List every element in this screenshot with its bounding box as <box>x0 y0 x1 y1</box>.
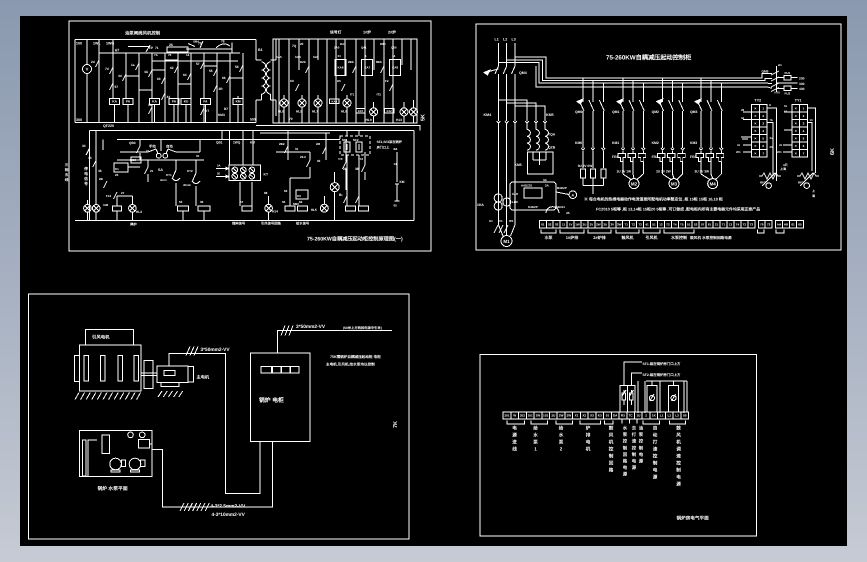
svg-text:T2: T2 <box>666 222 670 226</box>
svg-text:14: 14 <box>186 53 190 57</box>
svg-text:M1: M1 <box>503 239 510 244</box>
svg-text:T2: T2 <box>631 222 635 226</box>
svg-text:风: 风 <box>609 433 614 438</box>
svg-text:KT: KT <box>205 109 209 113</box>
svg-text:HL7: HL7 <box>312 110 318 114</box>
contact FP 71 <box>146 45 150 52</box>
svg-text:79: 79 <box>760 222 764 226</box>
svg-text:H13: H13 <box>396 118 402 122</box>
svg-text:21: 21 <box>150 169 154 173</box>
contact 39 bottom <box>149 107 153 114</box>
contact K7 <box>175 66 179 73</box>
svg-text:D2b: D2b <box>300 60 306 64</box>
contactor KM5 star block <box>527 152 553 174</box>
contact 43 <box>93 160 97 167</box>
svg-text:HL8: HL8 <box>341 110 347 114</box>
svg-text:电: 电 <box>623 465 628 470</box>
svg-text:排: 排 <box>586 433 591 438</box>
svg-text:67: 67 <box>115 49 119 53</box>
svg-text:3U: 3U <box>603 222 607 226</box>
svg-text:T5: T5 <box>680 222 684 226</box>
signal wire column 4 <box>308 39 310 123</box>
motor M1 cable marks <box>498 198 500 225</box>
svg-text:50: 50 <box>217 172 221 176</box>
contact 23p <box>307 160 311 167</box>
svg-text:W: W <box>513 414 516 418</box>
rung link g <box>165 59 178 61</box>
rung link d <box>204 65 217 67</box>
svg-text:1HA: 1HA <box>477 203 484 207</box>
svg-text:TY2: TY2 <box>755 99 762 103</box>
svg-text:QF220: QF220 <box>103 124 114 128</box>
svg-text:41: 41 <box>645 222 649 226</box>
svg-text:KM2: KM2 <box>652 141 659 145</box>
rung link e <box>230 77 243 79</box>
svg-text:FR1: FR1 <box>612 155 619 159</box>
coupling <box>144 361 153 389</box>
svg-text:70: 70 <box>289 117 293 121</box>
svg-text:源: 源 <box>512 433 517 438</box>
svg-text:TrF: TrF <box>338 157 343 161</box>
wire PV drop <box>86 40 88 65</box>
thermal relay FR3 <box>696 154 704 162</box>
svg-text:FA: FA <box>203 100 208 104</box>
svg-text:信号灯: 信号灯 <box>330 30 342 35</box>
svg-text:21: 21 <box>715 222 719 226</box>
svg-text:制: 制 <box>609 454 614 459</box>
svg-text:D41: D41 <box>340 42 346 46</box>
rung link a <box>126 75 139 77</box>
svg-text:2#炉: 2#炉 <box>388 30 396 35</box>
svg-text:KM5: KM5 <box>546 113 554 117</box>
svg-text:QZB: QZB <box>548 146 556 150</box>
pump cable run <box>152 441 272 507</box>
relay box KA8 <box>390 60 401 76</box>
signal wire column 11 <box>373 39 375 70</box>
svg-text:动: 动 <box>653 433 658 438</box>
signal wire column 7 <box>335 39 337 123</box>
ladder mid rail <box>152 60 238 62</box>
rung wire column 3 <box>125 53 127 99</box>
wire link 59 <box>309 167 311 178</box>
pump house tall rect <box>102 435 110 454</box>
indicator lamp HL8 <box>343 99 351 107</box>
relay coil KA1 <box>110 99 120 105</box>
contact Tr2 <box>362 165 366 172</box>
meter box 1 <box>647 385 657 412</box>
relay KA1 coil <box>113 206 122 211</box>
svg-text:KT1: KT1 <box>166 173 172 177</box>
svg-text:fT2: fT2 <box>377 93 382 97</box>
svg-text:H4: H4 <box>777 222 781 226</box>
svg-text:HL9: HL9 <box>366 118 372 122</box>
pump house box <box>79 430 152 476</box>
supply cable marks <box>281 326 293 336</box>
svg-text:水泵: 水泵 <box>544 235 554 240</box>
svg-text:KM: KM <box>400 180 405 184</box>
bus 67 sub rail <box>99 52 240 54</box>
svg-text:电: 电 <box>639 452 644 457</box>
KT feeder wire 3 <box>252 131 254 166</box>
feeder elbow L2 <box>507 60 761 81</box>
signal wire column 13 <box>392 39 394 123</box>
svg-text:M3: M3 <box>671 181 678 186</box>
svg-text:57: 57 <box>115 85 119 89</box>
bus 100 top rail <box>75 39 256 41</box>
control section left rail <box>89 131 91 221</box>
svg-text:SF2-装在锅炉房门口上方: SF2-装在锅炉房门口上方 <box>643 373 681 377</box>
lamp HL4 <box>265 204 273 212</box>
relay box KA6 <box>335 60 346 76</box>
svg-text:3*50mm2-VV: 3*50mm2-VV <box>201 347 231 353</box>
wire SA row <box>120 151 148 153</box>
svg-text:鼓风机: 鼓风机 <box>622 235 635 240</box>
svg-text:水: 水 <box>532 433 538 438</box>
svg-text:60: 60 <box>157 77 161 81</box>
svg-text:1W: 1W <box>536 414 541 418</box>
rung wire column 2 <box>112 53 114 99</box>
transformer B1 primary winding <box>255 40 257 61</box>
fuse FU1 <box>777 77 785 79</box>
svg-text:主电机,引风机,给水泵均以控制: 主电机,引风机,给水泵均以控制 <box>326 362 375 367</box>
lamp HL11 <box>410 108 418 116</box>
svg-text:电: 电 <box>586 440 591 445</box>
svg-text:油泵闸阀风机控制: 油泵闸阀风机控制 <box>125 31 161 36</box>
svg-text:n49: n49 <box>103 203 109 207</box>
contact QB3 <box>137 146 141 153</box>
single stubs panel 4 <box>621 419 623 424</box>
svg-text:7K: 7K <box>393 421 399 428</box>
wire coil drop 7 <box>237 96 239 99</box>
svg-text:25: 25 <box>770 145 774 149</box>
current transformer 1HA <box>494 194 502 202</box>
svg-text:泵: 泵 <box>623 432 628 437</box>
svg-text:1#炉: 1#炉 <box>363 30 371 35</box>
TY1 stubs left <box>784 111 792 113</box>
fan machine body <box>80 345 142 391</box>
svg-text:M4: M4 <box>710 181 717 186</box>
cabinet supply drop <box>277 331 392 353</box>
svg-text:3V: 3V <box>610 222 614 226</box>
svg-text:三: 三 <box>65 163 69 167</box>
contact 28b <box>353 66 357 73</box>
svg-text:F12: F12 <box>106 194 112 198</box>
svg-text:停炉: 停炉 <box>130 223 137 227</box>
svg-text:进: 进 <box>512 440 517 445</box>
svg-text:300: 300 <box>799 82 805 86</box>
svg-text:43: 43 <box>88 156 92 160</box>
contact 34 <box>86 148 90 155</box>
svg-text:7b: 7b <box>770 118 774 122</box>
svg-text:Bı: Bı <box>339 193 342 197</box>
svg-text:KM1: KM1 <box>612 141 619 145</box>
svg-text:SF1-装在锅炉房门口上方: SF1-装在锅炉房门口上方 <box>643 362 681 366</box>
wire right KM column <box>396 152 398 166</box>
svg-text:炉: 炉 <box>586 426 591 431</box>
resistor join bus <box>583 185 603 187</box>
contactor KM3 <box>699 148 703 150</box>
svg-text:电: 电 <box>632 459 637 464</box>
svg-text:KM3: KM3 <box>218 113 225 117</box>
contactor KM5 contacts <box>526 118 528 121</box>
svg-text:相: 相 <box>65 167 69 172</box>
svg-text:53: 53 <box>179 200 183 204</box>
svg-text:电: 电 <box>512 426 517 431</box>
svg-text:T3: T3 <box>750 222 754 226</box>
KT feeder wire 2 <box>242 131 244 166</box>
svg-text:61: 61 <box>791 222 795 226</box>
svg-text:L3: L3 <box>675 414 679 418</box>
svg-text:锅炉房电气平面: 锅炉房电气平面 <box>677 516 710 521</box>
contactor KM1 <box>621 148 625 150</box>
svg-text:1: 1 <box>534 447 537 452</box>
svg-text:2: 2 <box>560 447 563 452</box>
signal wire column 5 <box>317 39 319 60</box>
wire 1WL drop <box>98 40 100 54</box>
strip group brackets panel 2 <box>541 229 556 233</box>
transformer B1 leads bottom <box>261 94 263 100</box>
rung wire column 4 <box>138 53 140 123</box>
svg-text:7Q: 7Q <box>292 44 297 48</box>
svg-text:KA: KA <box>112 100 117 104</box>
pump 1 <box>110 458 122 470</box>
svg-text:鼓风机 水泵控制回路电源: 鼓风机 水泵控制回路电源 <box>690 235 732 240</box>
rung wire column 9 <box>203 53 205 99</box>
svg-text:1WQ: 1WQ <box>233 141 241 145</box>
svg-text:T3: T3 <box>638 222 642 226</box>
svg-text:62: 62 <box>170 66 174 70</box>
svg-text:引风机: 引风机 <box>646 235 659 240</box>
svg-text:93: 93 <box>317 159 321 163</box>
svg-text:FU2: FU2 <box>785 92 791 96</box>
svg-text:27: 27 <box>121 191 125 195</box>
transformer B1 secondary winding <box>267 62 271 94</box>
signal section frame <box>273 39 417 123</box>
svg-text:2#炉排: 2#炉排 <box>593 235 605 240</box>
svg-text:A: A <box>571 193 574 197</box>
svg-text:L3: L3 <box>512 38 516 42</box>
svg-text:打: 打 <box>632 432 637 437</box>
svg-text:源: 源 <box>676 482 681 487</box>
lamp HL3 <box>129 205 137 213</box>
svg-text:HL3: HL3 <box>136 210 142 214</box>
svg-text:K4ǱP: K4ǱP <box>528 205 538 209</box>
feeder elbow L1 <box>515 57 761 78</box>
svg-text:500: 500 <box>250 118 256 122</box>
svg-text:7d: 7d <box>105 67 109 71</box>
svg-text:K3: K3 <box>598 414 602 418</box>
svg-text:海: 海 <box>812 194 815 198</box>
svg-text:2W: 2W <box>596 222 601 226</box>
svg-text:电: 电 <box>653 468 658 473</box>
svg-text:鼓: 鼓 <box>609 426 614 431</box>
svg-text:01: 01 <box>338 54 342 58</box>
relay coil box K5 <box>285 206 295 211</box>
signal wire column 3 <box>298 39 300 70</box>
svg-text:2A0: 2A0 <box>334 46 340 50</box>
svg-text:2d: 2d <box>91 60 95 64</box>
bridge contact 26 <box>167 47 188 52</box>
voltmeter PV <box>83 65 92 74</box>
lamp HL2 <box>92 205 100 213</box>
relay coil KM7 <box>233 99 243 105</box>
svg-text:hA5: hA5 <box>313 55 319 59</box>
svg-text:75-260KW自耦减压起动柜控制原理图(一): 75-260KW自耦减压起动柜控制原理图(一) <box>307 236 403 243</box>
motor M2 <box>622 168 624 174</box>
svg-text:(50米上方两相电源中引来): (50米上方两相电源中引来) <box>343 326 382 330</box>
svg-text:控: 控 <box>639 439 644 444</box>
relay coil box KA9 <box>330 99 339 103</box>
svg-text:制: 制 <box>623 445 628 450</box>
svg-text:TY1: TY1 <box>795 99 802 103</box>
cable main motor 3*50mm2-VV <box>169 353 260 493</box>
svg-text:3W: 3W <box>617 222 622 226</box>
svg-text:62: 62 <box>299 200 303 204</box>
contactor KM4 contacts <box>498 118 500 121</box>
secondary return wire <box>256 125 420 130</box>
svg-text:煤闸信号: 煤闸信号 <box>232 222 246 226</box>
svg-text:101: 101 <box>528 414 533 418</box>
feeder neutral <box>536 66 761 87</box>
svg-text:14: 14 <box>392 54 396 58</box>
svg-text:4-3*10mm2-VV: 4-3*10mm2-VV <box>212 512 246 518</box>
svg-text:H8: H8 <box>784 222 788 226</box>
rung link f <box>139 89 152 91</box>
svg-text:64: 64 <box>183 73 187 77</box>
svg-text:HL5: HL5 <box>311 208 317 212</box>
contact 78 <box>216 44 230 48</box>
svg-text:制: 制 <box>676 468 681 473</box>
svg-text:油: 油 <box>639 426 644 431</box>
indicator lamp H13 <box>400 108 408 116</box>
svg-text:去: 去 <box>632 426 637 431</box>
svg-text:200: 200 <box>799 77 805 81</box>
svg-text:机: 机 <box>586 447 591 452</box>
motor M4 <box>700 168 702 174</box>
svg-text:1U 1V 1W: 1U 1V 1W <box>617 170 632 174</box>
svg-text:75K围锅炉自耦减压起动柜 电柜: 75K围锅炉自耦减压起动柜 电柜 <box>330 354 381 359</box>
svg-text:给: 给 <box>559 426 564 431</box>
svg-text:H: H <box>769 103 771 107</box>
svg-text:回: 回 <box>623 452 628 457</box>
svg-text:14: 14 <box>394 162 398 166</box>
signal wire column 9 <box>355 39 357 123</box>
upper mid rails <box>221 131 223 140</box>
svg-text:K10: K10 <box>358 109 364 113</box>
svg-text:FA: FA <box>126 100 131 104</box>
indicator lamp HL7 <box>314 99 322 107</box>
svg-text:K12: K12 <box>387 109 393 113</box>
junction box <box>138 439 149 448</box>
svg-text:4A: 4A <box>144 70 149 74</box>
svg-text:3B: 3B <box>355 167 360 171</box>
contact lower K6b <box>162 93 166 100</box>
svg-text:控: 控 <box>653 454 658 459</box>
svg-text:QM1: QM1 <box>612 110 619 114</box>
svg-text:57: 57 <box>240 200 244 204</box>
svg-text:KM: KM <box>250 141 255 145</box>
contact K8 <box>188 73 192 80</box>
svg-text:4-3*2.5mm2-VV: 4-3*2.5mm2-VV <box>211 503 246 509</box>
svg-text:300: 300 <box>76 118 82 122</box>
contact row2 b <box>342 84 346 91</box>
wire mid rail 2 <box>117 159 204 161</box>
svg-text:线: 线 <box>512 447 517 452</box>
svg-text:FR2: FR2 <box>652 155 659 159</box>
rung wire column 11 <box>229 53 231 123</box>
svg-text:M2: M2 <box>631 181 638 186</box>
terminal block TY1 <box>792 105 800 113</box>
svg-text:75-260KW自耦减压起动控制柜: 75-260KW自耦减压起动控制柜 <box>606 54 692 62</box>
main motor feet <box>161 383 179 387</box>
svg-text:68: 68 <box>264 191 268 195</box>
svg-text:2M: 2M <box>316 142 321 146</box>
contact n21 <box>145 167 149 174</box>
rung wire column 5 <box>151 53 153 99</box>
svg-text:鼓: 鼓 <box>676 426 681 431</box>
svg-text:3ʌ: 3ʌ <box>770 136 774 140</box>
svg-text:05: 05 <box>394 204 398 208</box>
svg-text:02: 02 <box>548 222 552 226</box>
svg-text:51: 51 <box>652 222 656 226</box>
svg-text:T1: T1 <box>624 222 628 226</box>
wire SF2 line <box>631 373 642 386</box>
sheet frame panel 4 <box>480 355 757 537</box>
svg-text:2W: 2W <box>566 414 571 418</box>
svg-text:13: 13 <box>729 222 733 226</box>
svg-text:上: 上 <box>812 189 815 193</box>
relay coil FA4 <box>169 99 179 105</box>
svg-text:X3: X3 <box>590 414 594 418</box>
svg-text:电: 电 <box>84 171 88 176</box>
svg-text:26: 26 <box>169 43 173 47</box>
svg-text:0U 0V 0W: 0U 0V 0W <box>578 164 593 168</box>
relay coil KU5 <box>181 99 191 105</box>
group brackets panel 4 <box>507 420 525 424</box>
svg-text:01: 01 <box>541 222 545 226</box>
relay box KA7 <box>362 60 373 76</box>
svg-text:SA: SA <box>158 168 163 172</box>
motor M3 <box>662 168 664 174</box>
indicator lamp HL6 <box>280 99 288 107</box>
signal wire column 15 <box>410 39 412 70</box>
branch QM3 disconnect <box>700 78 702 102</box>
contact KT bottom <box>201 108 205 115</box>
KT feeder wire 1 <box>229 131 231 166</box>
svg-text:A4Ǳ01: A4Ǳ01 <box>521 184 533 188</box>
svg-text:引风信号回路: 引风信号回路 <box>261 222 281 226</box>
svg-text:36: 36 <box>200 200 204 204</box>
svg-text:28: 28 <box>741 108 745 112</box>
svg-text:※ 每台电机的热继电器动作电流值按所配电机功率整定位 ,柜: ※ 每台电机的热继电器动作电流值按所配电机功率整定位 ,柜 15柜 15柜 16… <box>584 197 723 202</box>
svg-text:D5: D5 <box>337 79 341 83</box>
contact K11 <box>227 76 231 83</box>
time relay KT box <box>229 165 261 180</box>
wire top connector <box>646 380 687 382</box>
svg-text:K1: K1 <box>115 167 119 171</box>
svg-text:手动: 手动 <box>149 145 156 149</box>
svg-text:KA6: KA6 <box>337 66 343 70</box>
thermal relay FR1 <box>618 154 626 162</box>
svg-text:201: 201 <box>504 414 509 418</box>
svg-text:DA: DA <box>613 414 618 418</box>
svg-text:渣: 渣 <box>653 447 658 452</box>
control section right rail <box>413 131 415 221</box>
TY1 right wires <box>807 108 815 173</box>
svg-text:QM5: QM5 <box>762 70 769 74</box>
svg-text:73: 73 <box>767 222 771 226</box>
svg-text:水: 水 <box>623 426 628 431</box>
